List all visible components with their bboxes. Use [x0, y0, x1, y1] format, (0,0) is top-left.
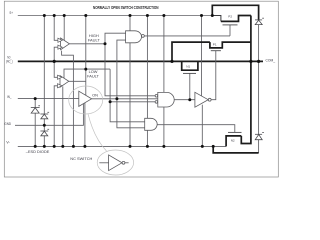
wire NAND bottom to V- [129, 43, 131, 147]
wire ON line buffer output to U2 middle input [92, 98, 158, 100]
svg-text:NC SWITCH: NC SWITCH [70, 156, 92, 161]
wire U2 output to U3 input [174, 99, 195, 101]
wire S+ thread into NAND top [129, 16, 131, 31]
wire D2 leads [43, 16, 45, 115]
node GND/D2 [43, 124, 46, 127]
transistor N1 gate bar [183, 72, 196, 74]
callout leader line [88, 114, 107, 151]
node U2 out / N1 gate [188, 98, 191, 101]
node S+/x147 [146, 14, 149, 17]
node S+/x163.9 [162, 14, 165, 17]
transistor P2 gate bar [183, 25, 242, 132]
node COM/x258 [257, 60, 260, 63]
wire U3 output to P1 gate [211, 51, 216, 100]
wire U4 bottom to V- [146, 130, 148, 146]
transistor N2 channel path [226, 136, 241, 147]
wire P2 top loop from S+ [212, 5, 258, 20]
svg-text:COM_: COM_ [266, 58, 276, 62]
wire P2 gate lead [229, 25, 231, 36]
diode D2 (zener to GND) [40, 112, 49, 119]
transistor P1 channel path [210, 42, 251, 48]
wire D5 anode lead [258, 140, 260, 153]
node V-/D3 [43, 145, 46, 148]
svg-text:(NC_): (NC_) [6, 59, 13, 63]
svg-text:–ESD DIODE: –ESD DIODE [26, 149, 50, 154]
wire S+ thread into U4 top [146, 16, 148, 119]
node S+/x130 [129, 14, 132, 17]
wire V- rail [18, 145, 226, 147]
op-amp U1a HIGH comparator [58, 38, 70, 50]
wire U1b top edge to LOW-FAULT line [64, 69, 110, 78]
wire U1a bottom to V- [62, 51, 74, 147]
svg-text:N1: N1 [186, 65, 190, 69]
node S+/x54.9 [53, 14, 56, 17]
and gate U4 (2-input) [145, 118, 158, 130]
transistor P2 channel path [221, 16, 251, 22]
wire U4 output to N2 gate [157, 125, 235, 133]
wire HIGH-FAULT junction down to U2 top input [105, 44, 155, 96]
node HIGH-FAULT junction [104, 42, 107, 45]
inverter NC (inside callout) [99, 155, 128, 171]
wire P2 source approach [212, 16, 221, 22]
thick switch path P1 drain rail [172, 5, 259, 153]
svg-text:S+: S+ [9, 11, 13, 15]
node ON/NAND branch [115, 97, 118, 100]
op-amp U1b LOW comparator [58, 75, 69, 88]
svg-text:P2: P2 [228, 14, 232, 18]
wire LOW line branch down to U4 top input [110, 102, 145, 122]
node V-/D1 [34, 145, 37, 148]
NC switch callout ellipse [97, 150, 133, 175]
wire U3 bottom to V- [201, 105, 203, 147]
node IN_/D1 [34, 97, 37, 100]
wire U1b output [69, 80, 86, 82]
wire LOW-FAULT line down to U2 bottom input [110, 69, 155, 102]
wire S+ thread to ON buffer top [85, 16, 87, 96]
node V-/x201.8 [201, 145, 204, 148]
node S+/x64 [63, 14, 66, 17]
wire V- step down to bottom line [213, 146, 258, 153]
node NO_/x172 [170, 60, 173, 63]
svg-text:NORMALLY OPEN SWITCH CONSTRUCT: NORMALLY OPEN SWITCH CONSTRUCTION [93, 5, 159, 10]
wire V- to U1b bottom input [54, 86, 58, 147]
wire N1 gate lead [189, 73, 191, 99]
transistor N2 gate bar [228, 131, 242, 133]
wire GND rail [15, 104, 83, 125]
diode D1 (ESD zener on IN_) [31, 106, 40, 113]
node V-/x147 [146, 145, 149, 148]
diode D3 (zener GND to V-) [40, 129, 49, 136]
node LOW/U4 branch [109, 100, 112, 103]
node V-/x213.9 [212, 145, 215, 148]
node LOW-FAULT line [84, 68, 87, 71]
transistor P1 gate bar [211, 50, 221, 52]
buffer U6 ON driver [79, 91, 92, 106]
wire U1b bottom edge to V- [62, 86, 64, 146]
wire IN_ rail [18, 98, 79, 100]
wire supply thread S+ into U1a top edge [63, 16, 65, 42]
wire S+ rail [18, 15, 213, 17]
nand gate U5 [126, 31, 145, 43]
wire NO_ rail / COM rail (thick analog path) [18, 60, 263, 62]
svg-text:ON: ON [92, 93, 98, 98]
svg-text:FAULT: FAULT [88, 37, 100, 42]
wire COM to D5 [258, 61, 260, 134]
node S+/x212 [211, 14, 214, 17]
wire S+ thread into U3 top [201, 16, 203, 97]
node V-/x62.8 [61, 145, 64, 148]
wire supply thread S+ into U2 top edge [163, 16, 165, 93]
node V-/x54.6 [53, 145, 56, 148]
node S+/x85.8 [84, 14, 87, 17]
node V-/x163.9 [162, 145, 165, 148]
svg-text:N2: N2 [231, 138, 235, 142]
wire D3 leads [43, 125, 45, 131]
diode D4 (zener S+ loop to COM) [255, 18, 264, 24]
wire NO_ to U1a bottom input [54, 47, 58, 61]
svg-text:P1: P1 [213, 42, 217, 46]
node COM/x250.9 [249, 60, 252, 63]
inverter U3 [195, 92, 211, 107]
transistor N1 channel path [182, 61, 198, 70]
wire NAND output to P2 gate line [144, 35, 230, 37]
wire U2 bottom edge to V- [163, 107, 165, 146]
node S+/x201 [200, 14, 203, 17]
node V-/x73.4 [72, 145, 75, 148]
wire S+ to comparator U1a top input [54, 16, 58, 41]
node S+/x44 [43, 14, 46, 17]
wire ON buffer bottom to V- [84, 103, 86, 146]
diode D5 (zener COM to V-) [255, 133, 264, 140]
wire U1a output to junction [69, 43, 105, 45]
svg-text:IN_: IN_ [7, 95, 12, 99]
wire HIGH-FAULT junction up to NAND top input [105, 33, 126, 44]
wire D1 leads [34, 99, 36, 108]
node V-/x130 [129, 145, 132, 148]
wire D4 branch to COM [258, 25, 260, 62]
node NO_ [53, 60, 56, 63]
svg-text:GND: GND [4, 122, 11, 126]
and gate U2 (3-input) [155, 92, 174, 107]
wire P2/P1 drain vertical to COM and N2 drain [241, 16, 251, 144]
wire ON line branch up to NAND bottom input [117, 40, 126, 99]
svg-text:FAULT: FAULT [87, 73, 99, 78]
wire NO_ to U1b top input [54, 61, 58, 77]
border frame [4, 1, 278, 177]
wire ON line branch down to U4 bottom input [117, 99, 145, 128]
node V-/x84.9 [83, 145, 86, 148]
callout ellipse around ON driver [69, 86, 103, 114]
